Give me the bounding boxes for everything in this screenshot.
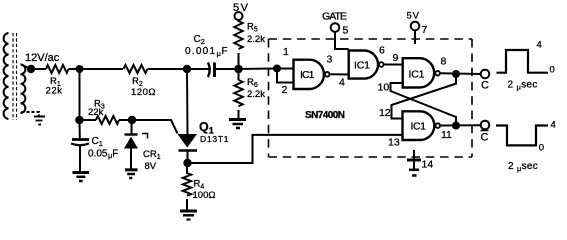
svg-text:12: 12 [379,107,391,119]
op-amp gate IC1a (NAND 1) [294,60,330,89]
wire secondary top lead [21,65,31,70]
IC package outline SN7400N (dashed box) [269,39,473,157]
waveform C (positive pulse) [497,50,549,73]
svg-text:4: 4 [339,77,345,89]
wire R1 to node A [69,68,80,70]
resistor R1 [46,65,69,73]
wire R6 to ground [238,110,240,119]
wire pin 8 to terminal C [440,72,480,75]
svg-text:120Ω: 120Ω [131,87,156,98]
svg-text:C: C [481,80,489,92]
svg-text:2.2k: 2.2k [247,89,265,100]
svg-text:0: 0 [539,143,544,154]
wire C1 to ground [79,146,81,172]
svg-text:C: C [481,132,489,144]
svg-text:IC1: IC1 [354,60,370,72]
terminal Cbar [481,121,490,130]
svg-text:5: 5 [343,25,349,37]
wire node E to R3 [80,119,97,121]
svg-text:2: 2 [282,84,288,96]
terminal 5V (left) [235,12,243,20]
terminal C [481,70,490,79]
ground (transformer secondary) [34,117,45,125]
wire cross-couple pin 8 to pin 12 [392,74,457,119]
ground (C1) [73,173,90,182]
resistor R5 [234,20,242,49]
wire node B to Q1 anode [186,69,189,134]
wire 5V to pin 7 [414,30,416,44]
capacitor C1 [71,140,89,146]
wire node C to IC input node [239,68,278,71]
svg-text:4: 4 [537,40,542,51]
wire pin 3 to pin 4 [330,73,348,75]
wire R5 to node C [238,53,240,69]
svg-text:0: 0 [550,65,555,76]
svg-text:14: 14 [422,159,434,171]
svg-text:100Ω: 100Ω [193,190,216,201]
wire node G to pin 13 of IC [188,135,403,163]
svg-text:1: 1 [283,46,289,58]
resistor R2 [124,65,148,73]
svg-text:0.001: 0.001 [185,46,215,57]
svg-text:4: 4 [551,120,556,131]
node 12V/ac junction [27,65,35,73]
waveform Cbar (negative pulse) [496,126,548,146]
wire pin 2 loop [277,69,294,83]
svg-text:IC1: IC1 [411,121,427,133]
wire node B to C2 [187,68,209,70]
wire R4 to ground [186,199,188,210]
wire R2 to node B [148,68,188,70]
svg-text:F: F [222,46,228,57]
wire pin 11 to terminal Cbar [441,124,481,126]
terminal GATE [331,23,340,32]
ground (R4) [180,211,197,220]
wire secondary bottom lead (dashed) [22,112,40,116]
svg-text:8: 8 [441,56,447,68]
op-amp gate IC1d (NAND 4) [403,111,441,140]
svg-text:GATE: GATE [322,11,347,23]
svg-text:10: 10 [378,82,390,94]
wire pin 6 to pin 9 [384,64,403,66]
label Cbar [481,131,489,144]
wire Q1 cathode to node G [187,152,189,164]
svg-text:11: 11 [441,129,452,141]
transistor Q1 (PUT) [178,134,198,151]
svg-text:3: 3 [327,54,333,66]
node C (junction C2/R5/R6) [234,65,243,74]
zener diode CR1 [124,134,148,149]
node I (pin 11 junction) [452,122,460,130]
svg-text:6: 6 [379,45,385,57]
wire CR1 to ground [130,149,132,170]
wire R3 to node F [119,119,132,121]
transformer T1 primary winding [4,33,9,119]
capacitor C2 [208,63,215,78]
node H (pin 8 junction) [452,70,460,78]
op-amp gate IC1b (NAND 2) [349,51,384,79]
transformer T1 secondary winding [21,65,26,113]
wire pin 1 [277,68,294,70]
svg-text:7: 7 [422,24,428,36]
svg-text:2.2k: 2.2k [247,34,265,45]
svg-text:12V/ac: 12V/ac [25,52,60,64]
node A (junction R1/R2/R3 branch) [76,65,84,73]
wire cross-couple pin 11 to pin 10 [391,83,457,126]
wire GATE to pin 5 [335,32,349,49]
wire 12V node to R1 [31,68,46,70]
svg-text:5V: 5V [407,11,420,22]
svg-text:9: 9 [393,52,399,64]
svg-text:0.05μF: 0.05μF [88,149,118,161]
wire C2 to node C [216,68,239,70]
wire node A to R2 [80,68,124,70]
ground (R6) [229,120,246,129]
svg-text:IC1: IC1 [409,69,425,81]
node D (IC1 input junction) [273,65,281,73]
wire pin 14 to ground [413,150,415,170]
svg-text:8V: 8V [145,161,157,172]
label 0.001uF (C2) [185,46,228,58]
svg-text:2 μsec: 2 μsec [508,80,538,92]
svg-text:22k: 22k [88,107,104,118]
node B (junction R2/C2/Q1 anode) [183,65,191,73]
resistor R3 [96,116,119,124]
svg-text:2 μsec: 2 μsec [508,161,538,173]
svg-text:SN7400N: SN7400N [305,110,345,121]
resistor R6 [234,80,242,106]
svg-text:IC1: IC1 [300,69,315,81]
wire node F to Q1 gate [132,120,178,134]
node F (junction CR1/Q1 gate) [128,116,136,124]
ground (CR1) [125,170,138,178]
wire node F to CR1 [131,120,133,135]
op-amp gate IC1c (NAND 3) [403,58,440,87]
wire node A down to R3 row [79,69,81,120]
transformer T1 core [13,33,17,120]
wire node C to R6 [238,69,240,80]
terminal 5V (right) [411,22,420,31]
wire node E to C1 [79,120,81,138]
svg-text:13: 13 [388,137,400,149]
node E (junction C1/R3) [75,116,84,125]
svg-text:22k: 22k [46,86,63,97]
ground (IC pin 14) [407,160,421,176]
svg-text:μ: μ [217,49,221,58]
resistor R4 [183,163,191,196]
node G (junction Q1/R4/IC pin13 wire) [183,159,191,167]
svg-text:D13T1: D13T1 [200,134,229,144]
